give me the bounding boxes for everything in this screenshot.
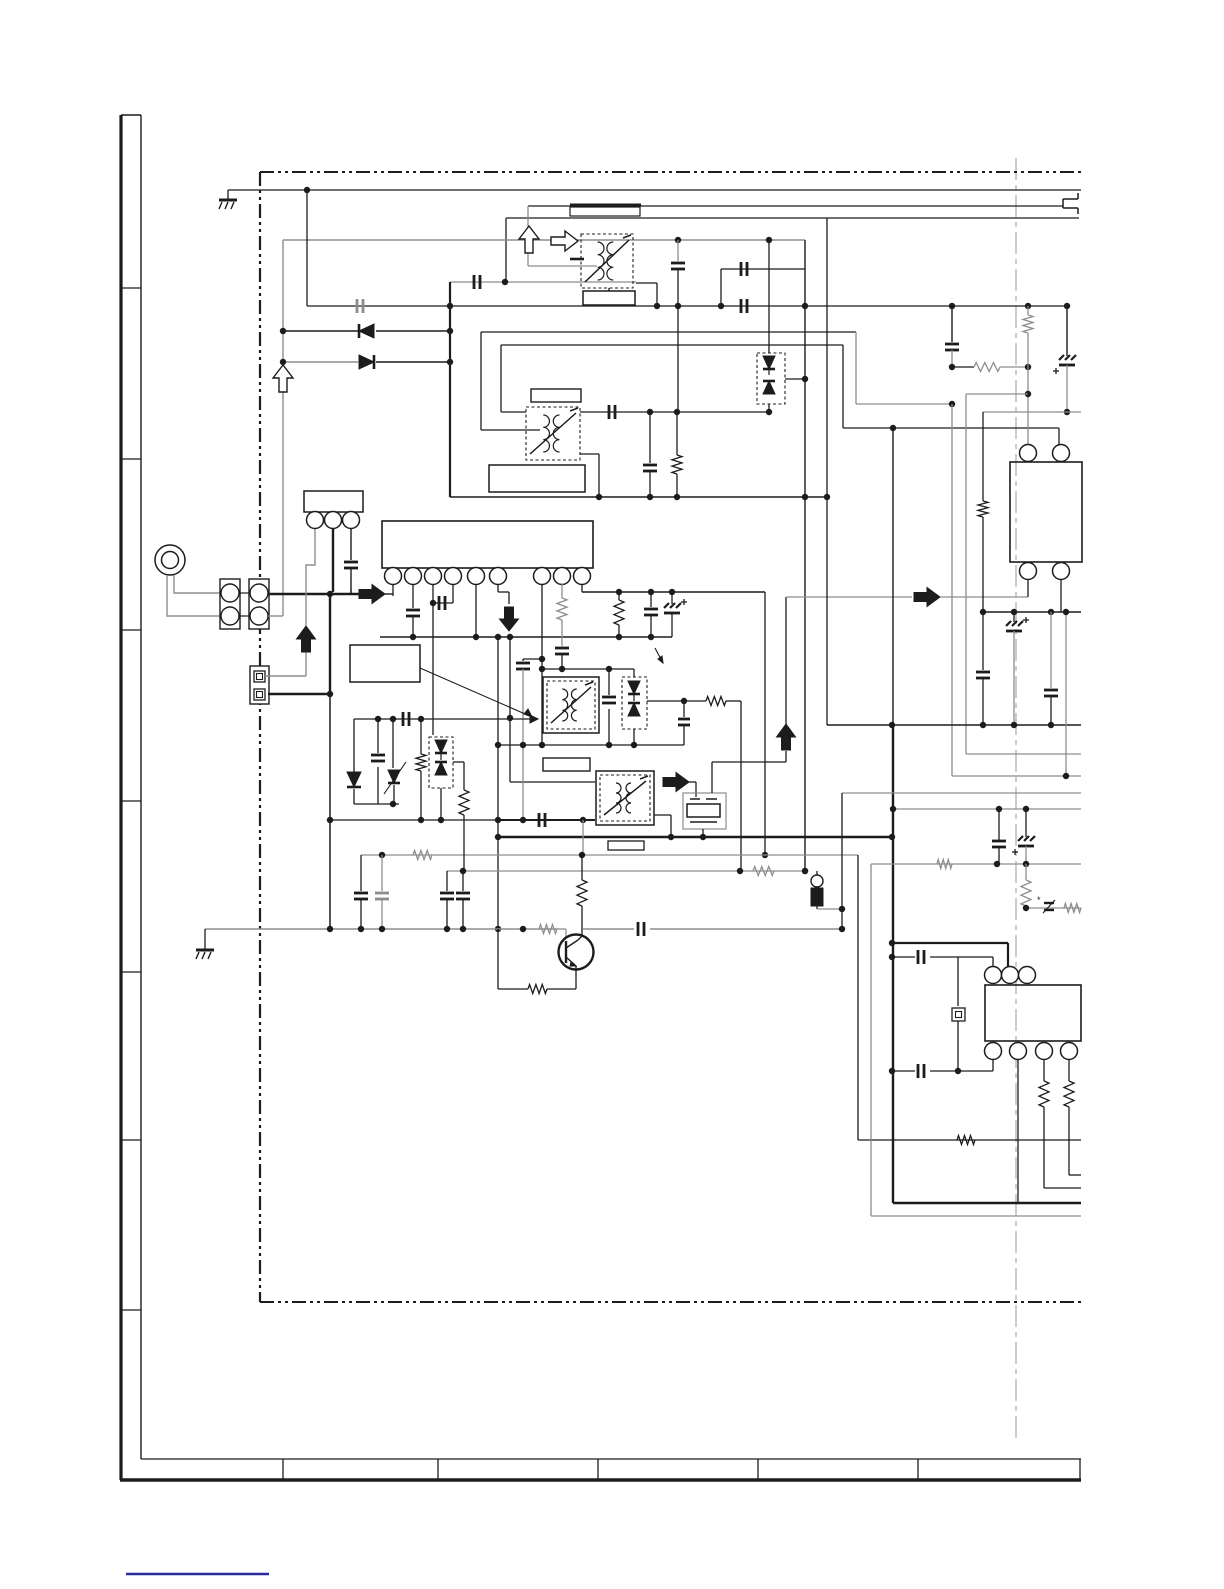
svg-text:*: * xyxy=(1037,895,1041,905)
